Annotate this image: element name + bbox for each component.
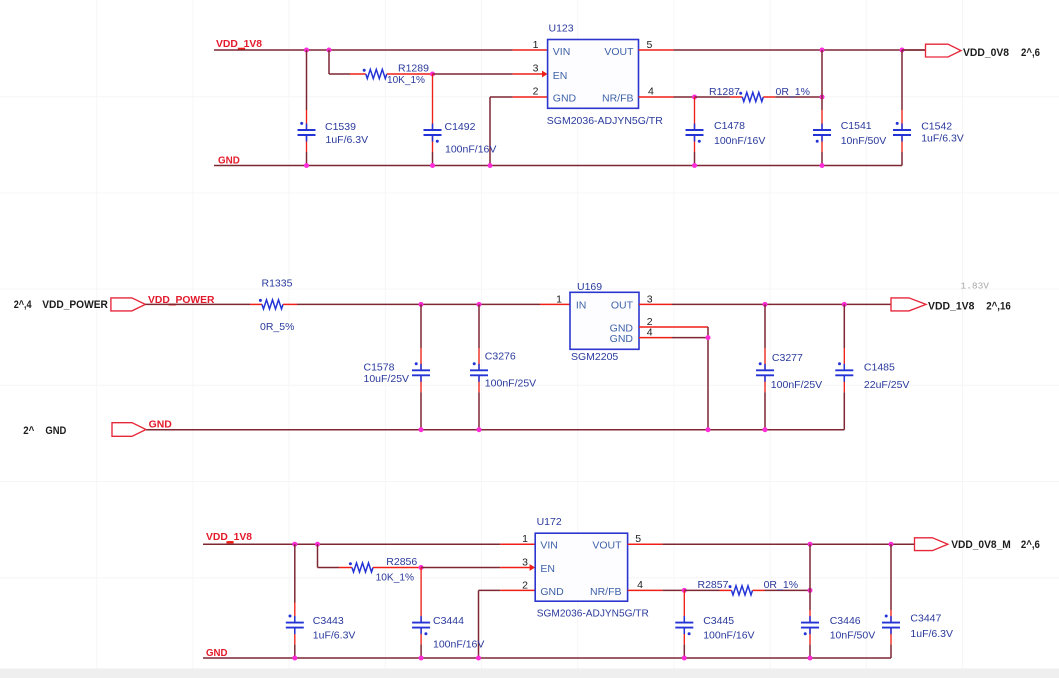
svg-text:3: 3 xyxy=(522,557,528,569)
svg-text:100nF/16V: 100nF/16V xyxy=(433,639,484,651)
svg-text:10nF/50V: 10nF/50V xyxy=(841,135,887,147)
node GND junction C3277 xyxy=(763,427,768,432)
node junction top rail / C1539 xyxy=(304,48,309,53)
node GND junction C3443 xyxy=(292,656,297,661)
svg-text:VDD_0V8: VDD_0V8 xyxy=(963,47,1009,59)
port flag VDD_0V8 xyxy=(926,44,962,57)
node junction bottom rail / C3443 xyxy=(292,542,297,547)
pin 1 stub U169 IN xyxy=(540,303,570,305)
wire C1478 lower xyxy=(694,152,696,166)
node junction R1287 / C1541 branch xyxy=(820,95,825,100)
wire VDD_POWER to R1335 xyxy=(145,303,250,305)
svg-text:100nF/25V: 100nF/25V xyxy=(771,379,822,391)
node junction rail / C3447 xyxy=(889,542,894,547)
svg-text:0R_1%: 0R_1% xyxy=(776,86,810,98)
node junction top rail / EN branch xyxy=(327,48,332,53)
svg-text:3: 3 xyxy=(533,63,539,75)
svg-text:10nF/50V: 10nF/50V xyxy=(830,630,876,642)
svg-text:VDD_0V8_M: VDD_0V8_M xyxy=(951,539,1011,551)
node junction R2857 / C3446 branch xyxy=(808,588,813,593)
op-amp U172 (regulator box) xyxy=(535,533,627,601)
svg-text:4: 4 xyxy=(648,86,654,98)
port flag VDD_0V8_M xyxy=(915,538,948,551)
node junction VOUT rail / C1541 xyxy=(820,48,825,53)
capacitor C3447 xyxy=(882,610,900,645)
port flag GND (middle) xyxy=(112,423,146,437)
wire NR/FB to C3445 xyxy=(663,589,685,591)
svg-text:GND: GND xyxy=(610,333,634,345)
svg-text:GND: GND xyxy=(206,647,228,659)
svg-text:U123: U123 xyxy=(549,23,574,35)
svg-text:100nF/16V: 100nF/16V xyxy=(445,144,496,156)
capacitor C1541 xyxy=(813,110,831,152)
node GND junction C3446 xyxy=(808,656,813,661)
node GND junction pin2 wire (bottom) xyxy=(476,656,481,661)
node junction bottom rail / EN branch xyxy=(315,542,320,547)
svg-text:100nF/16V: 100nF/16V xyxy=(703,630,754,642)
capacitor C1542 xyxy=(893,110,911,152)
svg-text:1: 1 xyxy=(522,533,528,545)
svg-text:VDD_POWER: VDD_POWER xyxy=(42,299,108,311)
svg-text:2^,4: 2^,4 xyxy=(14,299,33,311)
pin 4 stub U123 NR/FB xyxy=(639,96,674,98)
wire VDD_1V8 top rail xyxy=(214,49,513,51)
op-amp U123 (regulator box) xyxy=(548,40,639,109)
resistor R1335 xyxy=(250,299,297,309)
wire C1539 branch lower xyxy=(306,152,308,166)
node GND junction C3445 xyxy=(682,656,687,661)
capacitor C1478 xyxy=(686,97,704,152)
node GND junction C1478 xyxy=(692,163,697,168)
svg-text:NR/FB: NR/FB xyxy=(602,93,634,105)
wire VDD_0V8_M rail xyxy=(663,543,915,545)
capacitor C1485 xyxy=(835,348,853,392)
wire C1492 branch lower xyxy=(432,152,434,166)
svg-text:1uF/6.3V: 1uF/6.3V xyxy=(910,628,953,640)
capacitor C1578 xyxy=(412,348,430,392)
svg-text:C1539: C1539 xyxy=(325,121,356,133)
wire EN branch (bottom) xyxy=(318,544,340,567)
svg-text:GND: GND xyxy=(45,425,66,437)
wire OUT rail VDD_1V8 xyxy=(672,303,891,305)
capacitor C3444 xyxy=(412,568,430,645)
svg-text:U169: U169 xyxy=(577,281,602,293)
node junction C1485 xyxy=(842,302,847,307)
pin 3 stub U169 OUT xyxy=(639,303,672,305)
wire C3277 lower xyxy=(764,392,766,429)
port flag VDD_POWER xyxy=(111,298,145,311)
node junction R1289 / C1492 xyxy=(430,72,435,77)
svg-text:NR/FB: NR/FB xyxy=(590,586,622,598)
wire NR/FB to C1478 xyxy=(674,96,695,98)
wire C3443 lower xyxy=(294,645,296,658)
svg-text:C3277: C3277 xyxy=(772,352,803,364)
wire C3445 lower xyxy=(683,645,685,658)
wire R1335 to U169 xyxy=(297,303,540,305)
wire C3446 lower xyxy=(809,645,811,658)
capacitor C1539 xyxy=(298,110,316,152)
net label VDD_1V8 (top) xyxy=(216,38,262,50)
resistor R2856 xyxy=(339,562,421,572)
pin 4 stub U169 GND xyxy=(639,337,708,339)
wire C1541 branch upper xyxy=(821,50,823,110)
wire EN branch vertical + horizontal xyxy=(329,50,350,74)
svg-text:R2857: R2857 xyxy=(698,579,729,591)
svg-text:EN: EN xyxy=(553,70,568,82)
node junction C3277 xyxy=(763,302,768,307)
wire C1578 branch upper xyxy=(420,304,422,348)
svg-text:C1542: C1542 xyxy=(921,121,952,133)
svg-text:EN: EN xyxy=(540,563,555,575)
svg-text:10K_1%: 10K_1% xyxy=(387,74,425,86)
svg-text:1uF/6.3V: 1uF/6.3V xyxy=(313,630,356,642)
wire GND rail top section xyxy=(214,165,902,167)
pin 2 stub U169 GND xyxy=(639,326,708,328)
wire C1542 branch upper xyxy=(901,50,903,110)
wire VDD_1V8 bottom rail xyxy=(203,543,500,545)
svg-text:SGM2205: SGM2205 xyxy=(571,351,618,363)
svg-text:SGM2036-ADJYN5G/TR: SGM2036-ADJYN5G/TR xyxy=(547,115,663,127)
node GND junction pin2 wire xyxy=(488,163,493,168)
svg-text:R1289: R1289 xyxy=(398,63,429,75)
wire GND pin2 of U123 xyxy=(490,97,513,166)
node GND junction C1492 xyxy=(430,163,435,168)
pin 2 stub U172 GND xyxy=(500,589,535,591)
wire C3447 branch upper xyxy=(890,544,892,610)
capacitor C3276 xyxy=(470,348,488,392)
capacitor C1492 xyxy=(424,74,442,152)
capacitor C3277 xyxy=(756,348,774,392)
pin 2 stub U123 GND xyxy=(513,96,548,98)
wire GND pin2 of U172 xyxy=(479,590,501,658)
node junction rail / C3446 xyxy=(808,542,813,547)
svg-text:VOUT: VOUT xyxy=(592,540,622,552)
capacitor C3445 xyxy=(675,590,693,644)
pin 1 stub U172 VIN xyxy=(500,543,535,545)
svg-text:22uF/25V: 22uF/25V xyxy=(864,379,910,391)
svg-text:C3443: C3443 xyxy=(313,615,344,627)
pin 5 stub U123 VOUT xyxy=(639,49,674,51)
svg-text:C3445: C3445 xyxy=(703,615,734,627)
svg-text:R1287: R1287 xyxy=(709,86,740,98)
wire GND pins down xyxy=(707,327,709,430)
wire C3443 branch upper xyxy=(294,544,296,602)
resistor R1289 xyxy=(350,69,433,79)
svg-text:5: 5 xyxy=(647,39,653,51)
port flag VDD_1V8 (middle out) xyxy=(891,298,926,311)
svg-text:GND: GND xyxy=(553,93,577,105)
wire EN to U123 xyxy=(433,73,513,75)
svg-text:4: 4 xyxy=(637,579,643,591)
node GND junction C1578 xyxy=(419,427,424,432)
svg-text:C3444: C3444 xyxy=(433,615,464,627)
svg-text:VOUT: VOUT xyxy=(604,46,634,58)
svg-text:10K_1%: 10K_1% xyxy=(376,572,415,584)
svg-text:3: 3 xyxy=(647,293,653,305)
svg-text:1uF/6.3V: 1uF/6.3V xyxy=(921,133,964,145)
svg-text:C3276: C3276 xyxy=(485,351,516,363)
wire C1539 branch upper xyxy=(306,50,308,110)
svg-text:1: 1 xyxy=(533,39,539,51)
svg-text:R1335: R1335 xyxy=(262,278,293,290)
capacitor C3446 xyxy=(801,610,819,645)
wire C3276 branch upper xyxy=(478,304,480,348)
wire C1541 lower xyxy=(821,152,823,166)
node junction R2856 / C3444 xyxy=(419,565,424,570)
wire GND rail bottom section xyxy=(203,657,891,659)
wire C1542 lower xyxy=(901,152,903,166)
svg-text:100nF/25V: 100nF/25V xyxy=(485,378,536,390)
svg-text:C3446: C3446 xyxy=(830,615,861,627)
node junction NR/FB / C3445 xyxy=(682,588,687,593)
wire C1485 lower xyxy=(843,392,845,429)
pin 1 stub U123 VIN xyxy=(513,49,548,51)
svg-text:2^,6: 2^,6 xyxy=(1021,47,1040,59)
node junction pin2/pin4 xyxy=(706,335,711,340)
svg-text:10uF/25V: 10uF/25V xyxy=(364,373,410,385)
svg-text:2: 2 xyxy=(522,579,528,591)
net label VDD_POWER (red) xyxy=(148,294,215,306)
node junction VOUT rail / C1542 xyxy=(900,48,905,53)
node GND junction C3276 xyxy=(477,427,482,432)
svg-text:OUT: OUT xyxy=(611,299,634,311)
svg-text:C3447: C3447 xyxy=(910,613,941,625)
op-amp U169 (power switch box) xyxy=(570,292,639,349)
svg-text:1.83V: 1.83V xyxy=(961,281,990,292)
svg-text:VIN: VIN xyxy=(540,540,558,552)
svg-text:R2856: R2856 xyxy=(386,556,417,568)
svg-text:100nF/16V: 100nF/16V xyxy=(714,135,765,147)
pin 4 stub U172 NR/FB xyxy=(628,589,663,591)
svg-text:IN: IN xyxy=(576,299,587,311)
resistor R1287 xyxy=(695,92,823,102)
node GND junction C3444 xyxy=(419,656,424,661)
wire C1578 lower xyxy=(420,392,422,429)
svg-text:C1492: C1492 xyxy=(445,121,476,133)
svg-text:2^,6: 2^,6 xyxy=(1021,539,1040,551)
svg-text:C1578: C1578 xyxy=(364,362,395,374)
svg-text:C1541: C1541 xyxy=(841,120,872,132)
wire GND rail middle xyxy=(146,429,845,431)
svg-text:U172: U172 xyxy=(537,516,562,528)
wire C3277 branch upper xyxy=(764,304,766,348)
net label VDD_1V8 (bottom) xyxy=(206,531,252,543)
node GND junction C1541 xyxy=(820,163,825,168)
pin 5 stub U172 VOUT xyxy=(628,543,663,545)
node GND junction C1539 xyxy=(304,163,309,168)
svg-text:4: 4 xyxy=(647,326,653,338)
svg-text:0R_5%: 0R_5% xyxy=(260,321,294,333)
svg-text:GND: GND xyxy=(149,419,173,431)
capacitor C3443 xyxy=(286,603,304,645)
svg-text:VDD_1V8: VDD_1V8 xyxy=(928,300,974,312)
wire EN to U172 xyxy=(421,567,500,569)
pin 3 stub U172 EN with arrow xyxy=(500,564,535,571)
svg-text:5: 5 xyxy=(635,533,641,545)
svg-text:VIN: VIN xyxy=(553,46,571,58)
svg-text:2^,16: 2^,16 xyxy=(986,300,1011,312)
svg-text:2: 2 xyxy=(533,86,539,98)
node junction NR/FB / C1478 xyxy=(692,95,697,100)
node GND junction U169 gnd xyxy=(706,427,711,432)
node junction C1578 xyxy=(419,302,424,307)
node junction C3276 xyxy=(477,302,482,307)
svg-text:2^: 2^ xyxy=(23,425,35,437)
wire C3446 branch upper xyxy=(809,544,811,610)
wire VDD_0V8 rail xyxy=(674,49,926,51)
svg-text:1uF/6.3V: 1uF/6.3V xyxy=(326,134,369,146)
resistor R2857 xyxy=(684,585,810,595)
svg-text:GND: GND xyxy=(540,586,564,598)
pin 3 stub U123 EN with arrow xyxy=(513,71,548,78)
wire to output flag VDD_0V8 xyxy=(902,49,926,51)
svg-text:SGM2036-ADJYN5G/TR: SGM2036-ADJYN5G/TR xyxy=(537,608,649,620)
svg-text:0R_1%: 0R_1% xyxy=(764,579,798,591)
svg-text:1: 1 xyxy=(556,293,562,305)
wire C3444 lower xyxy=(420,645,422,658)
svg-text:GND: GND xyxy=(218,155,240,167)
svg-text:C1478: C1478 xyxy=(714,120,745,132)
wire C1485 branch upper xyxy=(843,304,845,348)
wire C3276 lower xyxy=(478,392,480,429)
svg-text:C1485: C1485 xyxy=(864,362,895,374)
wire C3447 lower xyxy=(890,645,892,658)
